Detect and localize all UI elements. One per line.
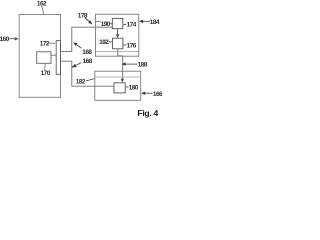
leader dash 190 to box [110, 23, 112, 25]
divider line inside block 166 [95, 76, 141, 78]
leader dash 180 to box [126, 86, 129, 88]
leader for label 172 [48, 42, 55, 44]
svg-text:166: 166 [153, 91, 162, 98]
svg-text:176: 176 [127, 42, 137, 49]
svg-text:184: 184 [150, 19, 160, 26]
wire 190-box to 192-box (arrow down) [117, 29, 119, 36]
leader dash 182 to box 166 [86, 79, 95, 81]
wire stub into label 190 [96, 20, 101, 22]
block 180 (inner box in 166) [114, 83, 125, 93]
divider line inside block 164 [96, 51, 139, 53]
svg-text:160: 160 [0, 36, 10, 43]
leader arrow for 178 (points down-right at wire bend) [85, 18, 90, 22]
svg-text:168: 168 [83, 58, 93, 65]
svg-text:192: 192 [99, 39, 109, 46]
svg-text:162: 162 [37, 0, 47, 7]
leader dash 176 to box [124, 44, 127, 46]
svg-text:188: 188 [138, 62, 148, 69]
leader arrow 188 (points left at wire) [125, 63, 138, 65]
block 162 (large left rectangle, control unit) [19, 15, 60, 98]
leader for label 170 [44, 64, 47, 70]
svg-text:172: 172 [40, 40, 50, 47]
svg-text:190: 190 [101, 21, 111, 28]
wire 178-link (172 out, up, right into box 164 to block 190) [61, 27, 113, 51]
block 164 (upper right outer box) [96, 14, 139, 56]
block 166 (lower right outer box) [95, 71, 141, 100]
svg-text:174: 174 [127, 21, 137, 28]
leader arrow for lower 168 (points down-left at riser) [76, 63, 82, 66]
leader arrow for upper 168 (points up-left at riser) [76, 44, 82, 48]
wire 168-link (172 out, down, right into box 166 to block 180) [61, 61, 114, 86]
leader dash 174 to box [123, 24, 126, 26]
wire 170 to 172 [51, 54, 56, 56]
arrow 184 (points left at box 164 edge) [143, 20, 151, 22]
leader for label 162 [42, 6, 44, 14]
block 170 (small box inside 162) [37, 52, 51, 64]
block 192-box (inner box bottom, in 164) [113, 38, 123, 49]
leader dash 192 to box [109, 41, 113, 43]
svg-text:170: 170 [41, 70, 51, 77]
arrow 160 (points right at block 162 edge) [8, 38, 16, 40]
svg-text:180: 180 [129, 85, 139, 92]
svg-text:182: 182 [76, 78, 86, 85]
block 190-box (inner box top, in 164) [112, 18, 123, 28]
svg-text:178: 178 [78, 12, 88, 19]
wire 188-link (192-box down through box edges into block 180) [117, 49, 119, 56]
svg-text:168: 168 [82, 49, 92, 56]
svg-text:Fig. 4: Fig. 4 [137, 108, 158, 118]
block 172 (narrow interface box on right edge of 162) [56, 41, 60, 75]
arrow 166 (points left at box 166 edge) [145, 92, 153, 94]
